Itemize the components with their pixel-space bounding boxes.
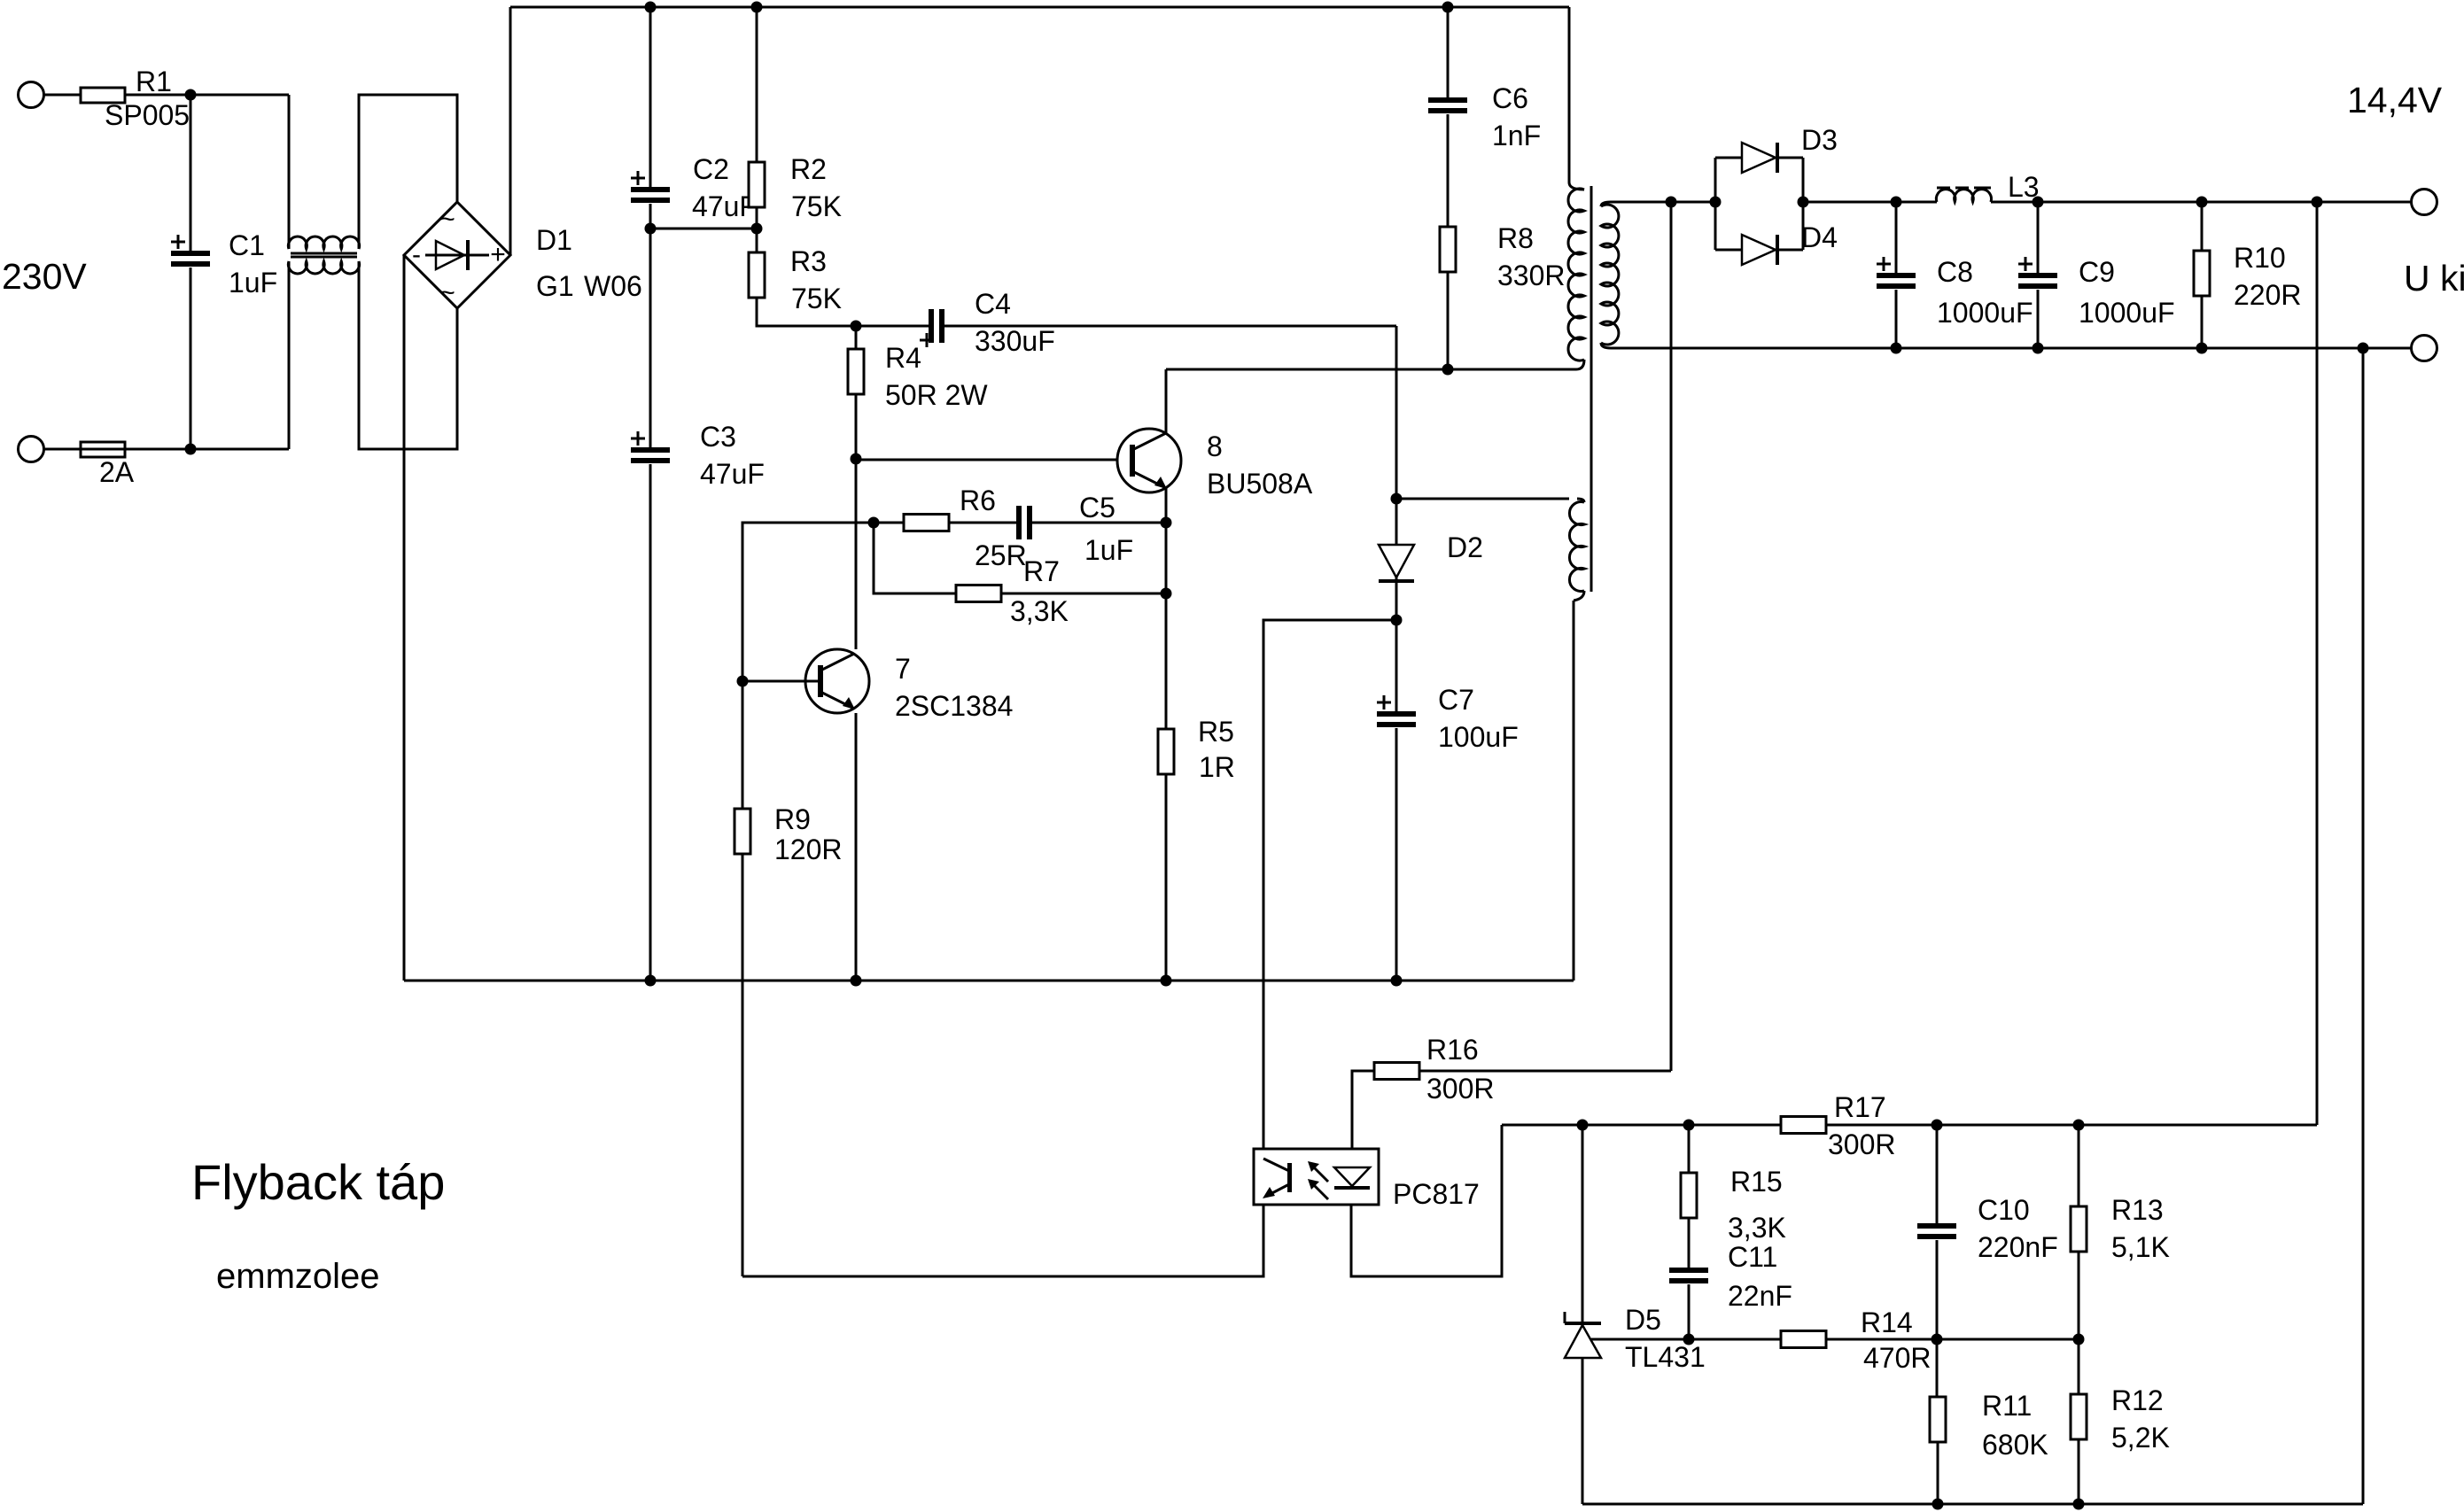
resistor R12 5,2K [2078,1339,2080,1394]
junction [1891,197,1902,208]
wire [125,448,289,451]
wire [1166,368,1576,371]
svg-text:C5: C5 [1079,492,1115,523]
junction [1161,517,1172,529]
junction [1932,1120,1943,1131]
wire [874,523,956,593]
svg-text:PC817: PC817 [1393,1178,1480,1210]
wire [855,459,858,649]
svg-text:G1: G1 [536,270,574,302]
capacitor C11 22nF [1669,1268,1708,1273]
wire [1802,158,1805,250]
wire [125,94,289,97]
transformer secondary [1601,202,1611,206]
wire: voltage sense [1670,202,1673,1071]
svg-text:330R: 330R [1497,260,1566,291]
svg-text:330uF: 330uF [975,325,1055,357]
junction [1161,588,1172,600]
svg-text:1uF: 1uF [229,267,277,299]
wire [742,523,874,681]
junction [851,321,862,332]
wire: opto collector [1263,620,1396,1149]
resistor R9 120R [742,681,744,809]
wire: opto emitter [742,1205,1263,1276]
wire: ground to divider [2362,348,2365,1504]
junction [868,517,880,529]
capacitor C7 100uF [1395,620,1398,711]
wire [650,228,757,230]
resistor R15 3,3K [1688,1125,1691,1173]
svg-text:470R: 470R [1863,1342,1932,1374]
svg-text:5,1K: 5,1K [2111,1231,2170,1263]
shunt regulator D5 TL431 [1582,1125,1584,1323]
svg-text:C1: C1 [229,229,265,261]
svg-text:230V: 230V [2,256,87,297]
wire: +14V rail [1803,201,1937,204]
wire [855,713,858,981]
wire [1714,158,1717,250]
junction [851,454,862,465]
resistor R2 75K [756,7,758,162]
resistor R16 300R [1352,1071,1671,1149]
svg-text:22nF: 22nF [1728,1280,1792,1312]
wire [44,94,82,97]
junction [645,223,657,235]
wire [1568,7,1571,182]
svg-text:75K: 75K [791,283,842,314]
svg-text:Flyback táp: Flyback táp [191,1154,445,1210]
wire [1396,498,1569,500]
svg-text:-: - [412,240,421,269]
svg-text:D5: D5 [1625,1304,1661,1336]
svg-text:+: + [490,240,506,269]
svg-text:2SC1384: 2SC1384 [895,690,1013,722]
svg-text:220R: 220R [2234,279,2302,311]
svg-text:120R: 120R [774,834,843,865]
svg-text:C6: C6 [1492,82,1528,114]
svg-text:1000uF: 1000uF [1937,297,2033,329]
junction [1666,197,1677,208]
svg-text:C9: C9 [2079,256,2115,288]
svg-text:300R: 300R [1828,1128,1896,1160]
svg-text:75K: 75K [791,190,842,222]
junction [1710,197,1722,208]
junction [1391,975,1403,987]
svg-text:C4: C4 [975,288,1011,320]
svg-text:R15: R15 [1730,1166,1783,1198]
wire [1165,488,1168,981]
wire [288,95,291,249]
junction [1891,343,1902,354]
junction [751,2,763,13]
resistor R4 50R 2W [855,326,858,349]
svg-text:R14: R14 [1861,1307,1913,1338]
capacitor C3 47uF [649,229,652,447]
svg-text:C8: C8 [1937,256,1973,288]
transistor Q8 BU508A [1117,429,1181,492]
capacitor C10 220nF [1936,1125,1939,1223]
junction [751,223,763,235]
svg-text:R5: R5 [1198,716,1234,748]
svg-text:C3: C3 [700,421,736,453]
svg-text:47uF: 47uF [700,458,765,490]
junction [1932,1334,1943,1345]
svg-text:1R: 1R [1199,751,1235,783]
capacitor C8 1000uF [1895,202,1898,273]
svg-text:1000uF: 1000uF [2079,297,2175,329]
wire [403,255,406,981]
capacitor C1 1uF [190,95,192,251]
svg-text:R17: R17 [1834,1091,1886,1123]
terminal: output - [2412,336,2437,361]
junction [2073,1120,2085,1131]
fuse 2A [81,442,125,457]
svg-text:R9: R9 [774,803,811,835]
svg-text:R12: R12 [2111,1384,2164,1416]
svg-text:R11: R11 [1982,1390,2032,1422]
junction [185,89,197,101]
junction [1391,615,1403,626]
resistor R8 330R [1440,227,1456,272]
choke core [291,252,357,255]
junction [737,676,749,687]
svg-text:3,3K: 3,3K [1010,595,1069,627]
resistor R5 1R [1158,729,1174,774]
wire: +310V rail [510,6,1569,9]
junction [1932,1499,1944,1510]
svg-text:D4: D4 [1801,221,1838,253]
junction [1161,975,1172,987]
svg-text:5,2K: 5,2K [2111,1422,2170,1454]
junction [2196,197,2208,208]
resistor R10 220R [2201,202,2204,251]
wire: opto LED cathode [1351,1125,1502,1276]
wire: feedback rail [1502,1124,2317,1127]
wire: secondary top [1611,201,1715,204]
svg-text:100uF: 100uF [1438,721,1519,753]
junction [2033,197,2044,208]
wire: primary ground rail [404,980,1574,982]
junction [185,444,197,455]
transistor Q7 2SC1384 [805,649,869,713]
junction [1442,2,1454,13]
svg-text:C7: C7 [1438,684,1474,716]
junction [1577,1120,1589,1131]
inductor L1 (choke top winding) [288,236,359,249]
wire [44,448,82,451]
junction [2312,197,2323,208]
svg-text:1nF: 1nF [1492,120,1541,151]
svg-text:3,3K: 3,3K [1728,1212,1786,1244]
svg-text:680K: 680K [1982,1429,2048,1461]
svg-text:R13: R13 [2111,1194,2164,1226]
transformer aux winding [1577,499,1584,502]
junction [1391,493,1403,505]
svg-text:300R: 300R [1426,1073,1495,1105]
wire [359,95,457,249]
capacitor C9 1000uF [2037,202,2040,273]
diode D2 [1379,545,1414,578]
svg-text:R4: R4 [885,342,921,374]
svg-text:R1: R1 [136,66,172,97]
svg-text:R6: R6 [960,485,996,516]
wire [509,7,512,255]
wire [1991,201,2411,204]
resistor R3 75K [756,229,758,252]
svg-text:R10: R10 [2234,242,2286,274]
svg-text:R8: R8 [1497,222,1534,254]
svg-text:2A: 2A [99,456,135,488]
svg-text:emmzolee: emmzolee [216,1257,380,1296]
svg-text:BU508A: BU508A [1207,468,1313,500]
inductor L2 (choke bottom winding) [288,261,359,274]
wire: output return rail [1611,347,2411,350]
svg-text:D3: D3 [1801,124,1838,156]
terminal: AC input L (230V) [19,82,44,108]
wire [359,261,457,449]
capacitor C5 1uF [1016,506,1022,539]
resistor R11 680K [1936,1339,1939,1397]
svg-text:R2: R2 [790,153,827,185]
svg-text:14,4V: 14,4V [2347,80,2443,120]
svg-text:R16: R16 [1426,1034,1479,1066]
resistor R17 300R [1781,1117,1826,1134]
wire: +14V to divider [2316,202,2319,1125]
resistor R14 470R [1781,1331,1826,1348]
resistor R7 3,3K [956,585,1001,602]
junction [645,2,657,13]
junction [2073,1499,2085,1510]
transformer primary [1569,182,1584,190]
svg-text:D1: D1 [536,224,572,256]
terminal: AC input N [19,437,44,462]
diode D4 [1715,249,1742,252]
svg-text:U ki: U ki [2404,258,2464,299]
junction [2358,343,2369,354]
wire: TL431 ref [1591,1338,1781,1341]
svg-text:R7: R7 [1023,555,1060,587]
inductor L3 [1936,190,1991,202]
svg-text:~: ~ [439,278,455,307]
junction [2196,343,2208,354]
resistor R1 SP005 (fusible) [81,88,125,103]
junction [2033,343,2044,354]
optocoupler PC817 [1254,1149,1379,1205]
svg-text:W06: W06 [584,270,642,302]
wire [288,261,291,449]
terminal: output + (U ki) [2412,190,2437,215]
junction [851,975,862,987]
wire: base drive [856,459,1132,461]
transformer core [1590,186,1593,592]
svg-text:C2: C2 [693,153,729,185]
wire: feedback ground rail [1582,1503,2363,1506]
capacitor C2 47uF [649,7,652,187]
resistor R16 body [1374,1063,1419,1080]
junction [1683,1334,1695,1345]
junction [1798,197,1809,208]
junction [1683,1120,1695,1131]
wire [1395,326,1398,499]
svg-text:C10: C10 [1978,1194,2030,1226]
svg-text:7: 7 [895,653,911,685]
junction [2073,1334,2085,1345]
svg-text:SP005: SP005 [105,99,190,131]
diode D3 [1715,157,1742,159]
resistor R13 5,1K [2078,1125,2080,1206]
svg-text:TL431: TL431 [1625,1341,1706,1373]
svg-text:~: ~ [439,205,455,234]
svg-text:R3: R3 [790,245,827,277]
junction [1442,364,1454,376]
wire [742,680,820,683]
capacitor C4 330uF [856,325,929,328]
svg-text:8: 8 [1207,430,1223,462]
svg-text:25R: 25R [975,539,1027,571]
svg-text:C11: C11 [1728,1241,1777,1273]
capacitor C6 1nF [1447,7,1450,97]
junction [645,975,657,987]
svg-text:47uF: 47uF [692,190,757,222]
svg-text:220nF: 220nF [1978,1231,2058,1263]
resistor R6 25R [874,522,904,524]
svg-text:1uF: 1uF [1084,534,1133,566]
svg-text:D2: D2 [1447,531,1483,563]
wire: collector [1165,369,1168,433]
bridge rectifier D1 G1 W06 [404,202,510,308]
svg-text:50R 2W: 50R 2W [885,379,988,411]
